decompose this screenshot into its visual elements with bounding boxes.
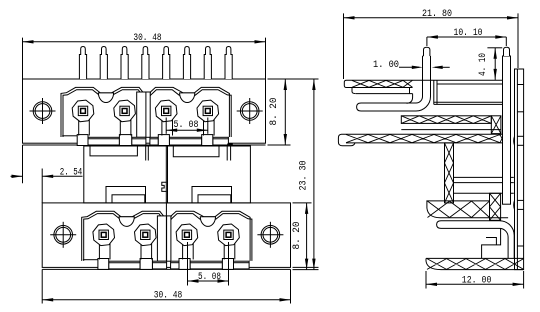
tab	[140, 259, 152, 270]
pin 5 (front view)	[163, 47, 170, 80]
terminal 4 neck	[203, 120, 205, 136]
housing block4 outline	[167, 211, 250, 261]
svg-text:5. 08: 5. 08	[174, 120, 199, 131]
dimension 23.30 right	[299, 79, 316, 270]
dimension 30.48 bottom	[42, 269, 290, 303]
pin 7 (front view)	[204, 47, 211, 80]
svg-text:1. 00: 1. 00	[373, 60, 399, 71]
dimension 1.00	[373, 60, 450, 71]
terminal contact 3	[155, 100, 177, 122]
tab	[222, 259, 233, 270]
pin 2 vertical	[503, 47, 511, 204]
center column	[157, 216, 171, 261]
center seam line	[166, 216, 168, 261]
hatched band row2	[427, 201, 508, 218]
hatched band mid	[401, 116, 501, 134]
housing wall at elbow	[407, 88, 413, 104]
shroud block A	[84, 146, 168, 203]
terminal 6 neck	[140, 243, 142, 259]
svg-text:5. 08: 5. 08	[198, 272, 221, 283]
tab	[119, 135, 131, 146]
terminal contact 5	[93, 224, 115, 246]
pin 8 (front view)	[225, 47, 232, 80]
pin 6 (front view)	[183, 47, 190, 80]
svg-text:30. 48: 30. 48	[133, 33, 161, 44]
dimension 30.48 top	[23, 33, 266, 79]
center column	[137, 92, 151, 137]
tab	[202, 135, 213, 146]
shroud bottom wall	[338, 134, 504, 146]
mounting hole left	[30, 98, 56, 124]
svg-text:23. 30: 23. 30	[299, 161, 310, 191]
terminal contact 1	[72, 100, 94, 122]
rail segment	[171, 261, 179, 269]
terminal 3 neck	[161, 120, 163, 136]
housing step under bend	[482, 228, 501, 258]
mounting hole right	[237, 98, 263, 124]
mounting hole left bottom	[50, 222, 76, 248]
pin 1 right-angle	[416, 47, 431, 111]
screw notch	[119, 217, 134, 227]
shroud block B	[168, 146, 251, 203]
rail left step	[83, 259, 98, 261]
terminal 8 neck	[223, 243, 225, 259]
front view, second row, bottom	[42, 203, 290, 270]
housing block3 outline	[82, 211, 172, 261]
hatched column	[445, 143, 454, 203]
pin 3 (front view)	[121, 47, 128, 80]
side cavity lines	[454, 177, 514, 193]
rail segment	[88, 137, 119, 145]
shroud boundary line	[165, 146, 167, 203]
dimension 8.20 lower right	[292, 203, 319, 270]
dimension 2.54	[11, 145, 83, 203]
dimension 5.08 bottom	[188, 242, 229, 286]
rear shroud between views	[84, 144, 251, 203]
rail segment	[169, 137, 201, 145]
rail segment	[150, 137, 158, 145]
center seam, bottom view	[165, 203, 167, 261]
rail segment	[132, 137, 146, 145]
dimension 10.10	[427, 28, 506, 46]
housing block1 outline	[61, 87, 151, 137]
mounting hole right bottom	[257, 222, 283, 248]
body upper-right block	[434, 80, 503, 104]
center seam line	[145, 92, 147, 137]
dimension 8.20 upper right	[268, 79, 319, 145]
svg-text:4. 10: 4. 10	[477, 53, 488, 76]
terminal 7 neck	[182, 243, 184, 259]
terminal 2 neck	[119, 120, 121, 136]
terminal 5 neck	[98, 243, 100, 259]
shroud vent A	[90, 146, 137, 156]
rail segment	[152, 261, 166, 269]
front view body	[23, 79, 266, 143]
body bottom ledge line	[23, 144, 266, 146]
screw notch	[98, 93, 113, 103]
rail segment	[234, 261, 250, 269]
svg-text:21. 80: 21. 80	[422, 9, 452, 20]
body bottom ledge line	[42, 268, 290, 270]
rail segment	[213, 137, 229, 145]
dimension 4.10	[477, 48, 502, 80]
rail segment	[109, 261, 140, 269]
dimension 21.80	[344, 9, 519, 79]
terminal contact 6	[135, 224, 157, 246]
svg-text:12. 00: 12. 00	[462, 276, 492, 287]
flange hook top	[513, 136, 516, 145]
dimension 5.08 top	[166, 118, 208, 134]
flange hook bottom	[513, 200, 516, 209]
tab	[98, 259, 109, 270]
bottom band (pcb face)	[426, 258, 524, 269]
svg-text:8. 20: 8. 20	[269, 98, 280, 126]
terminal contact 2	[114, 100, 136, 122]
clip detail	[162, 182, 167, 191]
tab	[158, 135, 169, 146]
housing block2 outline	[146, 87, 229, 137]
latch A	[106, 187, 146, 203]
svg-text:30. 48: 30. 48	[154, 290, 183, 301]
terminal 1 neck	[78, 120, 80, 136]
stub lines	[145, 145, 147, 161]
terminal contact 8	[218, 224, 240, 246]
contact pin row1 horizontal	[357, 103, 416, 111]
terminal contact 7	[176, 224, 198, 246]
rail segment	[190, 261, 222, 269]
pin 1 (front view)	[79, 47, 86, 80]
bottom view body	[42, 203, 290, 268]
pin 2 (front view)	[100, 47, 107, 80]
side view	[338, 9, 523, 288]
pin 4 (front view)	[142, 47, 149, 80]
rail left step	[62, 135, 77, 137]
latch B	[192, 187, 232, 203]
dimension 12.00	[426, 271, 524, 289]
shroud top wall	[344, 80, 502, 93]
terminal contact 4	[197, 100, 219, 122]
svg-text:10. 10: 10. 10	[454, 28, 483, 39]
shroud vent B	[173, 146, 219, 157]
tab	[77, 135, 88, 146]
front view, 8-pin header, top	[23, 47, 266, 146]
svg-text:2. 54: 2. 54	[60, 167, 83, 178]
hatched column right	[490, 193, 501, 220]
svg-text:8. 20: 8. 20	[292, 222, 303, 250]
right flange plate	[514, 69, 524, 270]
tab	[179, 259, 190, 270]
contact pin row2 + bend down	[437, 221, 515, 259]
